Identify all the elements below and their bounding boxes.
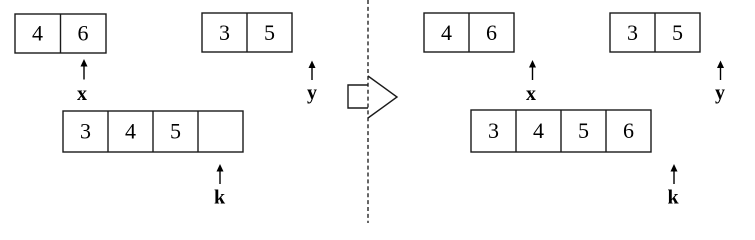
arrow k (left) <box>217 164 224 184</box>
arrow y (right) <box>717 61 724 81</box>
array box (left, four cells) <box>63 111 243 152</box>
svg-text:3: 3 <box>627 20 638 45</box>
dashed divider line <box>367 0 369 223</box>
svg-text:5: 5 <box>578 118 589 143</box>
svg-text:6: 6 <box>78 21 89 46</box>
box y (right, two cells) <box>610 13 700 52</box>
arrow x (left) <box>81 59 88 80</box>
arrow x (right) <box>529 60 536 80</box>
svg-text:3: 3 <box>80 119 91 144</box>
svg-text:x: x <box>77 83 87 105</box>
svg-text:4: 4 <box>441 20 452 45</box>
svg-text:4: 4 <box>125 119 136 144</box>
svg-text:y: y <box>307 82 317 104</box>
arrow y (left) <box>309 61 316 81</box>
svg-text:4: 4 <box>32 21 43 46</box>
transform arrow (hollow right arrow) <box>348 76 397 118</box>
svg-text:3: 3 <box>488 118 499 143</box>
array box (right, four cells) <box>471 110 651 152</box>
box y (left, two cells) <box>202 13 292 52</box>
svg-text:k: k <box>667 187 679 209</box>
svg-text:k: k <box>214 187 226 209</box>
box x (left, two cells) <box>15 14 106 53</box>
svg-text:5: 5 <box>264 20 275 45</box>
svg-text:4: 4 <box>533 118 544 143</box>
arrow k (right) <box>671 164 678 184</box>
svg-text:3: 3 <box>219 20 230 45</box>
svg-text:6: 6 <box>486 20 497 45</box>
svg-text:x: x <box>526 83 536 105</box>
svg-text:y: y <box>715 82 725 104</box>
svg-text:6: 6 <box>623 118 634 143</box>
svg-text:5: 5 <box>672 20 683 45</box>
svg-text:5: 5 <box>170 119 181 144</box>
box x (right, two cells) <box>424 13 514 52</box>
